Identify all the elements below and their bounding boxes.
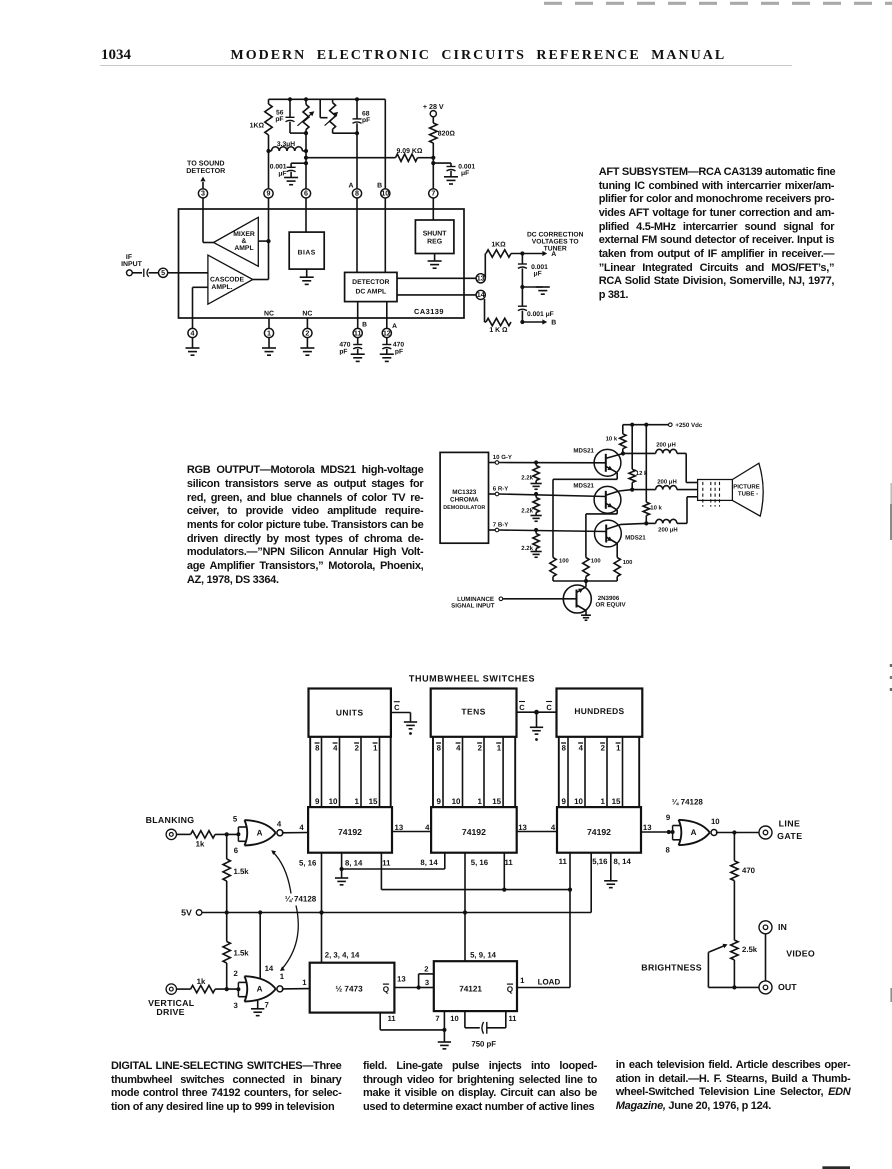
svg-text:11: 11 bbox=[559, 857, 568, 866]
svg-text:3: 3 bbox=[425, 978, 429, 987]
svg-text:1: 1 bbox=[497, 744, 502, 753]
svg-text:74192: 74192 bbox=[587, 827, 611, 837]
svg-text:1KΩ: 1KΩ bbox=[250, 123, 265, 130]
svg-text:CA3139: CA3139 bbox=[414, 307, 444, 316]
svg-text:&: & bbox=[242, 238, 247, 245]
svg-text:A: A bbox=[392, 323, 397, 330]
svg-text:1: 1 bbox=[267, 329, 271, 337]
svg-text:9.09 KΩ: 9.09 KΩ bbox=[397, 148, 423, 155]
svg-text:1k: 1k bbox=[197, 977, 206, 986]
svg-text:pF: pF bbox=[395, 348, 403, 355]
svg-text:IN: IN bbox=[778, 922, 787, 932]
svg-text:MDS21: MDS21 bbox=[573, 483, 594, 490]
svg-text:A: A bbox=[257, 829, 263, 838]
svg-text:14: 14 bbox=[265, 964, 274, 973]
svg-text:7: 7 bbox=[265, 1000, 269, 1009]
svg-text:74192: 74192 bbox=[338, 827, 362, 837]
svg-text:4: 4 bbox=[579, 744, 584, 753]
svg-text:DRIVE: DRIVE bbox=[156, 1007, 184, 1017]
svg-text:μF: μF bbox=[534, 270, 542, 277]
svg-text:OR EQUIV: OR EQUIV bbox=[596, 602, 627, 609]
svg-text:11: 11 bbox=[388, 1014, 396, 1023]
svg-text:NC: NC bbox=[264, 311, 274, 318]
svg-text:OUT: OUT bbox=[778, 982, 797, 992]
svg-text:VIDEO: VIDEO bbox=[786, 949, 815, 959]
svg-text:LINE: LINE bbox=[779, 819, 801, 829]
svg-text:4: 4 bbox=[456, 744, 461, 753]
svg-text:MDS21: MDS21 bbox=[625, 534, 646, 541]
svg-text:14: 14 bbox=[477, 291, 485, 299]
svg-text:200 μH: 200 μH bbox=[657, 478, 676, 485]
svg-text:5, 16: 5, 16 bbox=[299, 859, 317, 868]
svg-text:6 R-Y: 6 R-Y bbox=[493, 486, 508, 493]
svg-text:AMPL.: AMPL. bbox=[211, 284, 232, 291]
svg-text:10 k: 10 k bbox=[606, 436, 618, 443]
svg-text:1: 1 bbox=[478, 797, 483, 806]
svg-text:13: 13 bbox=[518, 823, 527, 832]
svg-text:TUNER: TUNER bbox=[544, 245, 567, 252]
svg-text:2: 2 bbox=[305, 329, 309, 337]
svg-text:13: 13 bbox=[643, 823, 652, 832]
svg-text:¼ 74128: ¼ 74128 bbox=[672, 798, 704, 807]
svg-text:11: 11 bbox=[354, 329, 362, 337]
svg-text:74192: 74192 bbox=[462, 827, 486, 837]
svg-text:10: 10 bbox=[329, 797, 338, 806]
svg-text:10: 10 bbox=[711, 817, 720, 826]
svg-text:1KΩ: 1KΩ bbox=[491, 241, 506, 248]
svg-text:½ 7473: ½ 7473 bbox=[335, 984, 363, 993]
svg-text:REG: REG bbox=[427, 239, 442, 246]
svg-text:GATE: GATE bbox=[777, 831, 802, 841]
svg-text:B: B bbox=[377, 183, 382, 190]
svg-text:A: A bbox=[349, 183, 354, 190]
svg-text:8: 8 bbox=[437, 744, 442, 753]
svg-text:10: 10 bbox=[381, 190, 389, 198]
svg-text:8: 8 bbox=[355, 190, 359, 198]
svg-text:9: 9 bbox=[562, 797, 567, 806]
svg-text:VOLTAGES TO: VOLTAGES TO bbox=[532, 238, 579, 245]
svg-text:470: 470 bbox=[339, 341, 350, 348]
svg-text:pF: pF bbox=[275, 116, 283, 123]
svg-text:13: 13 bbox=[397, 974, 406, 983]
svg-text:200 μH: 200 μH bbox=[658, 527, 677, 534]
svg-text:2: 2 bbox=[478, 744, 483, 753]
svg-text:Q: Q bbox=[383, 985, 390, 994]
svg-text:7: 7 bbox=[435, 1014, 439, 1023]
svg-text:1k: 1k bbox=[196, 839, 205, 848]
svg-text:NC: NC bbox=[302, 311, 312, 318]
svg-text:A: A bbox=[691, 828, 697, 837]
svg-text:SIGNAL INPUT: SIGNAL INPUT bbox=[451, 603, 495, 610]
svg-text:1: 1 bbox=[601, 797, 606, 806]
svg-text:MC1323: MC1323 bbox=[452, 489, 477, 496]
svg-text:8: 8 bbox=[666, 846, 671, 855]
svg-text:0.001 μF: 0.001 μF bbox=[527, 311, 554, 318]
svg-text:1.5k: 1.5k bbox=[234, 948, 250, 957]
svg-text:5V: 5V bbox=[181, 907, 192, 917]
svg-text:C: C bbox=[519, 703, 525, 712]
svg-text:μF: μF bbox=[278, 170, 286, 177]
svg-text:C: C bbox=[394, 703, 400, 712]
svg-text:5: 5 bbox=[161, 269, 165, 277]
svg-text:DETECTOR: DETECTOR bbox=[186, 167, 225, 175]
svg-text:Q: Q bbox=[507, 985, 514, 994]
svg-text:SHUNT: SHUNT bbox=[423, 231, 448, 238]
svg-text:8: 8 bbox=[315, 744, 320, 753]
svg-text:pF: pF bbox=[362, 117, 370, 124]
svg-text:12: 12 bbox=[383, 329, 391, 337]
svg-text:10: 10 bbox=[452, 797, 461, 806]
svg-text:4: 4 bbox=[277, 820, 282, 829]
svg-text:1: 1 bbox=[302, 978, 307, 987]
svg-text:7 B-Y: 7 B-Y bbox=[493, 522, 508, 529]
svg-text:3.3μH: 3.3μH bbox=[277, 141, 295, 148]
svg-text:4: 4 bbox=[191, 329, 195, 337]
svg-text:2.2k: 2.2k bbox=[521, 545, 533, 552]
svg-text:2.2k: 2.2k bbox=[521, 475, 533, 482]
svg-text:6: 6 bbox=[234, 846, 239, 855]
svg-text:8: 8 bbox=[562, 744, 567, 753]
svg-text:15: 15 bbox=[492, 797, 501, 806]
svg-text:10 G-Y: 10 G-Y bbox=[493, 454, 512, 461]
svg-text:HUNDREDS: HUNDREDS bbox=[574, 706, 624, 716]
svg-text:470: 470 bbox=[742, 866, 755, 875]
svg-text:13: 13 bbox=[395, 823, 404, 832]
svg-text:2.2k: 2.2k bbox=[521, 508, 533, 515]
svg-text:+ 28 V: + 28 V bbox=[423, 103, 444, 111]
svg-text:A: A bbox=[257, 985, 263, 994]
svg-text:C: C bbox=[546, 703, 552, 712]
svg-text:¼·74128: ¼·74128 bbox=[285, 895, 317, 904]
svg-text:9: 9 bbox=[666, 813, 671, 822]
svg-text:11: 11 bbox=[505, 858, 514, 867]
svg-text:DEMODULATOR: DEMODULATOR bbox=[443, 505, 485, 511]
svg-text:3: 3 bbox=[234, 1001, 239, 1010]
svg-text:AMPL: AMPL bbox=[234, 245, 253, 252]
svg-text:2: 2 bbox=[234, 969, 239, 978]
svg-text:BRIGHTNESS: BRIGHTNESS bbox=[641, 962, 702, 972]
svg-text:CASCODE: CASCODE bbox=[210, 277, 244, 284]
svg-text:200 μH: 200 μH bbox=[656, 442, 675, 449]
svg-text:13: 13 bbox=[477, 275, 485, 283]
svg-text:1: 1 bbox=[355, 797, 360, 806]
svg-text:LOAD: LOAD bbox=[538, 977, 561, 986]
svg-text:4: 4 bbox=[425, 823, 430, 832]
svg-text:5, 16: 5, 16 bbox=[471, 858, 489, 867]
svg-text:74121: 74121 bbox=[459, 984, 482, 993]
svg-text:UNITS: UNITS bbox=[336, 707, 364, 717]
svg-text:10: 10 bbox=[574, 797, 583, 806]
svg-text:1: 1 bbox=[616, 744, 621, 753]
svg-text:TUBE -: TUBE - bbox=[738, 491, 758, 498]
svg-text:1: 1 bbox=[280, 972, 285, 981]
svg-text:2, 3, 4, 14: 2, 3, 4, 14 bbox=[325, 951, 360, 960]
svg-text:15: 15 bbox=[612, 797, 621, 806]
svg-text:9: 9 bbox=[437, 797, 442, 806]
svg-text:4: 4 bbox=[299, 823, 304, 832]
svg-text:750 pF: 750 pF bbox=[471, 1039, 496, 1048]
svg-text:11: 11 bbox=[382, 859, 391, 868]
svg-text:CHROMA: CHROMA bbox=[450, 497, 479, 504]
svg-text:BLANKING: BLANKING bbox=[146, 815, 195, 825]
svg-text:PICTURE: PICTURE bbox=[733, 483, 760, 490]
svg-text:8, 14: 8, 14 bbox=[614, 857, 632, 866]
svg-text:8, 14: 8, 14 bbox=[420, 858, 438, 867]
svg-text:4: 4 bbox=[551, 823, 556, 832]
svg-text:5,16: 5,16 bbox=[592, 857, 608, 866]
svg-text:2.5k: 2.5k bbox=[742, 945, 758, 954]
svg-text:470: 470 bbox=[393, 341, 404, 348]
svg-text:820Ω: 820Ω bbox=[438, 130, 456, 137]
svg-text:4: 4 bbox=[333, 744, 338, 753]
svg-text:10: 10 bbox=[450, 1014, 458, 1023]
svg-text:pF: pF bbox=[339, 348, 347, 355]
svg-text:BIAS: BIAS bbox=[298, 249, 316, 256]
svg-text:5: 5 bbox=[233, 815, 238, 824]
svg-text:100: 100 bbox=[591, 558, 601, 565]
svg-text:IF: IF bbox=[126, 254, 132, 261]
svg-text:DC AMPL: DC AMPL bbox=[355, 289, 386, 296]
svg-text:μF: μF bbox=[461, 170, 469, 177]
svg-text:DETECTOR: DETECTOR bbox=[352, 279, 389, 286]
svg-text:+250 Vdc: +250 Vdc bbox=[675, 422, 702, 429]
svg-text:1: 1 bbox=[373, 744, 378, 753]
svg-text:2: 2 bbox=[601, 744, 606, 753]
svg-text:100: 100 bbox=[623, 559, 633, 566]
svg-text:B: B bbox=[362, 321, 367, 328]
svg-text:THUMBWHEEL SWITCHES: THUMBWHEEL SWITCHES bbox=[409, 674, 535, 684]
svg-text:1: 1 bbox=[520, 976, 525, 985]
svg-text:B: B bbox=[551, 320, 556, 327]
svg-text:1.5k: 1.5k bbox=[234, 867, 250, 876]
svg-text:11: 11 bbox=[509, 1014, 517, 1023]
svg-text:9: 9 bbox=[315, 797, 320, 806]
svg-text:DC CORRECTION: DC CORRECTION bbox=[527, 231, 584, 238]
svg-text:TENS: TENS bbox=[461, 706, 485, 716]
svg-text:MIXER: MIXER bbox=[233, 231, 255, 238]
svg-text:2: 2 bbox=[355, 744, 360, 753]
svg-text:1 K Ω: 1 K Ω bbox=[489, 327, 508, 334]
svg-text:8, 14: 8, 14 bbox=[345, 859, 363, 868]
svg-text:2: 2 bbox=[424, 965, 428, 974]
svg-text:INPUT: INPUT bbox=[121, 261, 143, 268]
svg-text:7: 7 bbox=[431, 190, 435, 198]
svg-text:3: 3 bbox=[201, 190, 205, 198]
svg-text:100: 100 bbox=[559, 558, 569, 565]
svg-text:5, 9, 14: 5, 9, 14 bbox=[470, 951, 497, 960]
svg-text:9: 9 bbox=[267, 190, 271, 198]
svg-text:6: 6 bbox=[304, 190, 308, 198]
svg-text:MDS21: MDS21 bbox=[573, 448, 594, 455]
svg-text:10 k: 10 k bbox=[650, 505, 662, 512]
svg-text:15: 15 bbox=[369, 797, 378, 806]
